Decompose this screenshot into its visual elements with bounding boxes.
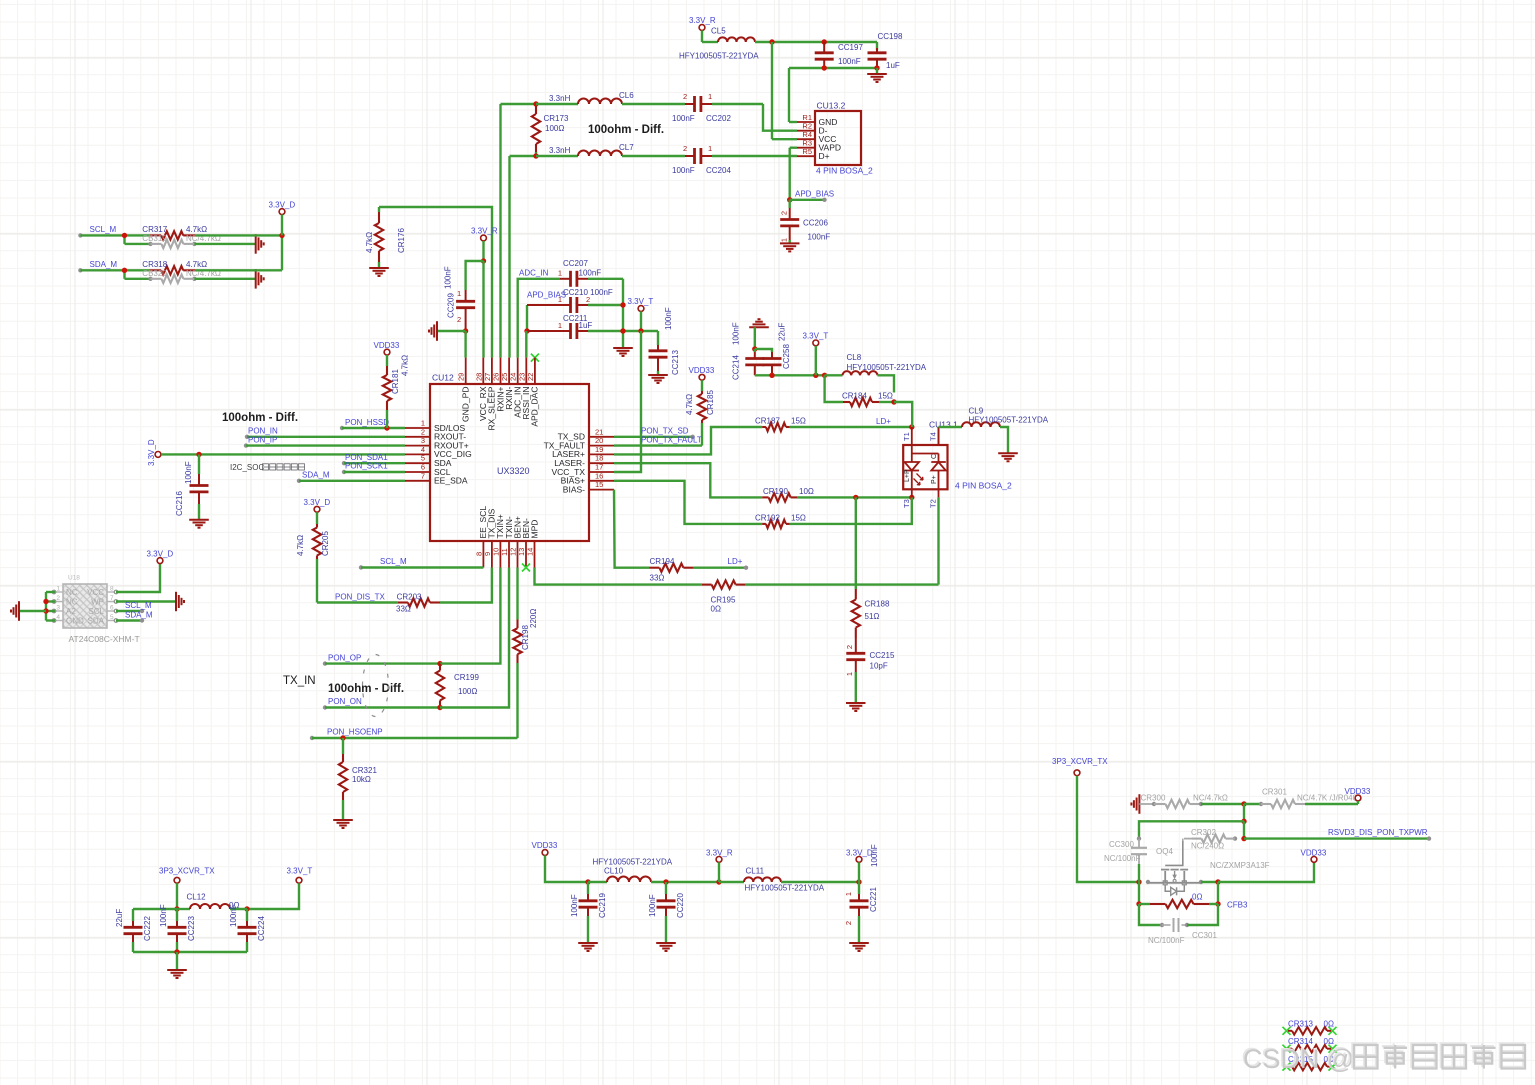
svg-text:HFY100505T-221YDA: HFY100505T-221YDA xyxy=(679,52,759,61)
svg-text:CL5: CL5 xyxy=(711,27,726,36)
svg-text:CC207: CC207 xyxy=(563,259,588,268)
svg-text:2: 2 xyxy=(844,921,853,925)
svg-text:SCL_M: SCL_M xyxy=(380,557,407,566)
svg-text:CR205: CR205 xyxy=(321,531,330,556)
svg-text:20: 20 xyxy=(595,436,603,445)
svg-text:5: 5 xyxy=(421,454,425,463)
svg-text:NC/ZXMP3A13F: NC/ZXMP3A13F xyxy=(1210,861,1270,870)
svg-text:CC210 100nF: CC210 100nF xyxy=(563,288,613,297)
svg-text:3P3_XCVR_TX: 3P3_XCVR_TX xyxy=(159,867,215,876)
svg-text:PON_OP: PON_OP xyxy=(328,653,361,662)
svg-text:CR194: CR194 xyxy=(650,557,675,566)
svg-text:CR181: CR181 xyxy=(391,369,400,394)
svg-text:1: 1 xyxy=(708,92,712,101)
svg-text:3.3V_R: 3.3V_R xyxy=(471,227,498,236)
svg-text:6: 6 xyxy=(110,605,114,612)
svg-text:100ohm - Diff.: 100ohm - Diff. xyxy=(222,412,298,424)
svg-text:14: 14 xyxy=(526,548,535,556)
svg-text:CC209: CC209 xyxy=(447,293,456,318)
svg-text:A2: A2 xyxy=(66,607,76,616)
svg-text:CB320: CB320 xyxy=(142,269,167,278)
svg-text:2: 2 xyxy=(56,595,60,602)
svg-text:AT24C08C-XHM-T: AT24C08C-XHM-T xyxy=(69,634,140,644)
svg-text:NC/100nF: NC/100nF xyxy=(1104,854,1141,863)
svg-text:16: 16 xyxy=(595,471,603,480)
svg-text:CR203: CR203 xyxy=(397,593,422,602)
svg-text:29: 29 xyxy=(457,373,466,381)
svg-text:1: 1 xyxy=(457,289,461,298)
svg-text:15Ω: 15Ω xyxy=(878,392,893,401)
svg-text:2: 2 xyxy=(683,144,687,153)
svg-text:100nF: 100nF xyxy=(570,894,579,917)
svg-text:HFY100505T-221YDA: HFY100505T-221YDA xyxy=(745,884,825,893)
svg-text:CC220: CC220 xyxy=(676,893,685,918)
svg-text:CC221: CC221 xyxy=(869,887,878,912)
svg-text:CC224: CC224 xyxy=(257,916,266,941)
svg-text:15Ω: 15Ω xyxy=(791,513,806,522)
svg-text:NC: NC xyxy=(66,588,78,597)
svg-text:8: 8 xyxy=(110,586,114,593)
svg-text:3.3nH: 3.3nH xyxy=(549,146,571,155)
svg-text:3: 3 xyxy=(421,436,425,445)
svg-text:3.3V_T: 3.3V_T xyxy=(803,332,829,341)
svg-text:1: 1 xyxy=(708,144,712,153)
svg-text:CSDN @: CSDN @ xyxy=(1243,1044,1354,1074)
svg-text:PON_IN: PON_IN xyxy=(248,427,278,436)
svg-text:100ohm - Diff.: 100ohm - Diff. xyxy=(588,124,664,136)
svg-text:22uF: 22uF xyxy=(778,323,787,341)
svg-text:VDD33: VDD33 xyxy=(1301,849,1327,858)
svg-text:LD+: LD+ xyxy=(728,557,743,566)
svg-text:CFB3: CFB3 xyxy=(1227,901,1248,910)
svg-text:R5: R5 xyxy=(802,147,812,156)
svg-text:CB319: CB319 xyxy=(142,234,167,243)
svg-text:SDA_M: SDA_M xyxy=(302,471,330,480)
svg-text:18: 18 xyxy=(595,454,603,463)
svg-text:GND: GND xyxy=(66,617,84,626)
svg-text:CC206: CC206 xyxy=(803,219,828,228)
svg-text:3.3V_D: 3.3V_D xyxy=(147,550,174,559)
svg-text:APD_DAC: APD_DAC xyxy=(530,387,540,427)
svg-text:CC211: CC211 xyxy=(563,314,588,323)
svg-text:33Ω: 33Ω xyxy=(396,605,411,614)
svg-text:D+: D+ xyxy=(819,151,830,161)
svg-text:CC213: CC213 xyxy=(671,350,680,375)
svg-text:MPD: MPD xyxy=(529,520,539,539)
svg-text:6: 6 xyxy=(421,463,425,472)
svg-text:NC/240Ω: NC/240Ω xyxy=(1191,842,1224,851)
svg-text:OQ4: OQ4 xyxy=(1156,847,1173,856)
svg-text:4.7kΩ: 4.7kΩ xyxy=(186,225,207,234)
svg-text:PON_HSSD: PON_HSSD xyxy=(345,418,389,427)
svg-text:100nF: 100nF xyxy=(672,114,695,123)
svg-text:PON_SDA1: PON_SDA1 xyxy=(345,453,388,462)
svg-text:1: 1 xyxy=(780,238,789,242)
svg-text:1: 1 xyxy=(56,586,60,593)
svg-text:1: 1 xyxy=(558,295,562,304)
svg-text:PON_HSOENP: PON_HSOENP xyxy=(327,728,383,737)
svg-text:3.3V_T: 3.3V_T xyxy=(628,297,654,306)
svg-text:3.3V_D: 3.3V_D xyxy=(269,201,296,210)
svg-text:100nF: 100nF xyxy=(579,269,602,278)
svg-text:CL8: CL8 xyxy=(847,353,862,362)
svg-text:100nF: 100nF xyxy=(184,461,193,484)
svg-text:100nF: 100nF xyxy=(870,844,879,867)
svg-text:HFY100505T-221YDA: HFY100505T-221YDA xyxy=(593,858,673,867)
svg-text:10kΩ: 10kΩ xyxy=(352,775,371,784)
svg-text:R1: R1 xyxy=(802,113,812,122)
svg-text:HFY100505T-221YDA: HFY100505T-221YDA xyxy=(847,363,927,372)
svg-text:51Ω: 51Ω xyxy=(865,612,880,621)
svg-text:33Ω: 33Ω xyxy=(650,574,665,583)
svg-text:CR302: CR302 xyxy=(1191,828,1216,837)
svg-text:CC202: CC202 xyxy=(706,114,731,123)
svg-text:CC258: CC258 xyxy=(782,344,791,369)
svg-text:CC216: CC216 xyxy=(175,491,184,516)
svg-text:17: 17 xyxy=(595,463,603,472)
svg-text:1: 1 xyxy=(845,672,854,676)
svg-text:PON_TX_SD: PON_TX_SD xyxy=(641,427,689,436)
svg-text:T1: T1 xyxy=(902,432,911,441)
svg-text:3.3V_D: 3.3V_D xyxy=(846,849,873,858)
svg-text:CR176: CR176 xyxy=(397,228,406,253)
svg-text:EE_SDA: EE_SDA xyxy=(434,476,468,486)
svg-text:SCL_M: SCL_M xyxy=(90,225,117,234)
svg-text:3.3V_T: 3.3V_T xyxy=(287,867,313,876)
svg-text:CL11: CL11 xyxy=(746,867,765,876)
svg-text:0Ω: 0Ω xyxy=(711,605,721,614)
svg-text:VDD33: VDD33 xyxy=(532,841,558,850)
svg-text:1: 1 xyxy=(558,321,562,330)
svg-text:UX3320: UX3320 xyxy=(497,466,530,476)
svg-text:7: 7 xyxy=(421,471,425,480)
svg-text:4.7kΩ: 4.7kΩ xyxy=(401,355,410,376)
svg-text:VDD33: VDD33 xyxy=(374,341,400,350)
svg-text:4 PIN BOSA_2: 4 PIN BOSA_2 xyxy=(816,166,873,176)
svg-text:100nF: 100nF xyxy=(808,233,831,242)
svg-text:VCC: VCC xyxy=(87,588,104,597)
svg-text:CC214: CC214 xyxy=(732,355,741,380)
svg-text:CL9: CL9 xyxy=(969,407,984,416)
svg-text:I2C_SOC: I2C_SOC xyxy=(230,463,264,472)
svg-text:SCL_M: SCL_M xyxy=(125,601,152,610)
svg-text:CC198: CC198 xyxy=(878,32,903,41)
svg-text:CC301: CC301 xyxy=(1192,931,1217,940)
svg-text:3.3V_D: 3.3V_D xyxy=(147,439,156,466)
svg-text:PON_SCK1: PON_SCK1 xyxy=(345,462,388,471)
svg-text:CR318: CR318 xyxy=(142,260,167,269)
svg-text:3: 3 xyxy=(56,605,60,612)
svg-text:15Ω: 15Ω xyxy=(791,417,806,426)
svg-text:3.3nH: 3.3nH xyxy=(549,94,571,103)
svg-text:T2: T2 xyxy=(929,499,938,508)
svg-text:7: 7 xyxy=(110,595,114,602)
svg-text:CR313: CR313 xyxy=(1288,1019,1313,1028)
svg-text:T3: T3 xyxy=(902,499,911,508)
svg-text:C: C xyxy=(931,454,938,459)
svg-text:NC: NC xyxy=(66,598,78,607)
svg-text:CC223: CC223 xyxy=(187,916,196,941)
svg-text:2: 2 xyxy=(845,645,854,649)
svg-text:CL12: CL12 xyxy=(187,893,207,902)
svg-text:CL7: CL7 xyxy=(619,143,634,152)
svg-text:3.3V_R: 3.3V_R xyxy=(706,849,733,858)
svg-text:4: 4 xyxy=(56,614,60,621)
svg-text:SCL: SCL xyxy=(88,607,104,616)
svg-text:4 PIN BOSA_2: 4 PIN BOSA_2 xyxy=(955,481,1012,491)
svg-text:VDD33: VDD33 xyxy=(1345,787,1371,796)
svg-text:1: 1 xyxy=(558,269,562,278)
svg-text:CR173: CR173 xyxy=(544,114,569,123)
svg-text:100Ω: 100Ω xyxy=(458,687,477,696)
svg-text:10Ω: 10Ω xyxy=(799,487,814,496)
svg-text:100nF: 100nF xyxy=(732,322,741,345)
svg-text:APD_BIAS: APD_BIAS xyxy=(795,190,834,199)
svg-text:SDA_M: SDA_M xyxy=(90,260,118,269)
svg-text:3.3V_D: 3.3V_D xyxy=(304,498,331,507)
svg-text:NC/4.7kΩ: NC/4.7kΩ xyxy=(1193,794,1228,803)
svg-text:3P3_XCVR_TX: 3P3_XCVR_TX xyxy=(1052,757,1108,766)
svg-text:5: 5 xyxy=(110,614,114,621)
svg-text:CR317: CR317 xyxy=(142,225,167,234)
svg-text:22uF: 22uF xyxy=(115,909,124,927)
svg-text:CR187: CR187 xyxy=(755,417,780,426)
svg-text:WP: WP xyxy=(91,598,104,607)
svg-text:4: 4 xyxy=(421,445,425,454)
svg-text:CR184: CR184 xyxy=(842,392,867,401)
svg-text:NC/100nF: NC/100nF xyxy=(1148,936,1185,945)
svg-text:CR321: CR321 xyxy=(352,766,377,775)
svg-text:PON_DIS_TX: PON_DIS_TX xyxy=(335,593,385,602)
svg-text:CR190: CR190 xyxy=(763,487,788,496)
svg-text:100nF: 100nF xyxy=(229,904,238,927)
svg-text:CR188: CR188 xyxy=(865,600,890,609)
svg-text:4.7kΩ: 4.7kΩ xyxy=(186,260,207,269)
svg-text:SDA: SDA xyxy=(88,617,105,626)
svg-text:21: 21 xyxy=(595,427,603,436)
svg-text:PON_TX_FAULT: PON_TX_FAULT xyxy=(641,435,702,444)
svg-text:2: 2 xyxy=(683,92,687,101)
svg-text:SDA_M: SDA_M xyxy=(125,610,153,619)
svg-text:220Ω: 220Ω xyxy=(529,609,538,628)
svg-text:1: 1 xyxy=(844,892,853,896)
svg-text:L+P: L+P xyxy=(904,469,911,482)
svg-text:CC197: CC197 xyxy=(838,43,863,52)
svg-text:1: 1 xyxy=(421,419,425,428)
svg-text:P+: P+ xyxy=(931,475,938,484)
svg-text:15: 15 xyxy=(595,480,603,489)
svg-text:100nF: 100nF xyxy=(672,166,695,175)
svg-text:CR199: CR199 xyxy=(454,673,479,682)
svg-text:PON_ON: PON_ON xyxy=(328,697,362,706)
svg-text:4.7kΩ: 4.7kΩ xyxy=(296,535,305,556)
svg-text:100ohm - Diff.: 100ohm - Diff. xyxy=(328,683,404,695)
svg-text:4.7kΩ: 4.7kΩ xyxy=(365,232,374,253)
svg-text:100nF: 100nF xyxy=(444,266,453,289)
svg-text:RSVD3_DIS_PON_TXPWR: RSVD3_DIS_PON_TXPWR xyxy=(1328,828,1428,837)
svg-text:22: 22 xyxy=(526,373,535,381)
svg-text:4.7kΩ: 4.7kΩ xyxy=(685,394,694,415)
svg-text:100nF: 100nF xyxy=(838,57,861,66)
svg-text:CR301: CR301 xyxy=(1262,788,1287,797)
svg-text:ADC_IN: ADC_IN xyxy=(519,269,549,278)
svg-text:CC204: CC204 xyxy=(706,166,731,175)
svg-text:100nF: 100nF xyxy=(648,894,657,917)
svg-text:CL10: CL10 xyxy=(604,867,624,876)
svg-text:2: 2 xyxy=(780,211,789,215)
svg-text:100Ω: 100Ω xyxy=(545,124,564,133)
svg-text:BIAS-: BIAS- xyxy=(563,484,585,494)
svg-text:VDD33: VDD33 xyxy=(689,366,715,375)
svg-text:CL6: CL6 xyxy=(619,91,634,100)
svg-text:CU12: CU12 xyxy=(432,373,454,383)
svg-text:HFY100505T-221YDA: HFY100505T-221YDA xyxy=(969,416,1049,425)
svg-text:LD+: LD+ xyxy=(876,417,891,426)
svg-text:CR195: CR195 xyxy=(711,595,736,604)
svg-text:CR300: CR300 xyxy=(1141,794,1166,803)
svg-text:CU13.2: CU13.2 xyxy=(817,101,846,111)
svg-text:2: 2 xyxy=(457,315,461,324)
svg-text:PON_IP: PON_IP xyxy=(248,435,277,444)
svg-text:CR185: CR185 xyxy=(706,390,715,415)
svg-text:CR192: CR192 xyxy=(755,513,780,522)
svg-text:19: 19 xyxy=(595,445,603,454)
svg-text:10pF: 10pF xyxy=(870,662,888,671)
svg-text:0Ω: 0Ω xyxy=(1192,893,1202,902)
svg-text:0Ω: 0Ω xyxy=(1324,1019,1334,1028)
svg-text:100nF: 100nF xyxy=(664,307,673,330)
svg-text:T4: T4 xyxy=(929,432,938,441)
svg-text:GND_PD: GND_PD xyxy=(461,387,471,422)
svg-text:2: 2 xyxy=(421,427,425,436)
svg-text:100nF: 100nF xyxy=(159,904,168,927)
svg-text:CC300: CC300 xyxy=(1109,840,1134,849)
svg-text:3.3V_R: 3.3V_R xyxy=(689,16,716,25)
svg-text:CC215: CC215 xyxy=(870,651,895,660)
svg-text:CC219: CC219 xyxy=(598,893,607,918)
svg-text:CC222: CC222 xyxy=(143,916,152,941)
svg-text:TX_IN: TX_IN xyxy=(283,675,316,687)
svg-text:U18: U18 xyxy=(68,575,80,582)
svg-text:1uF: 1uF xyxy=(886,61,900,70)
